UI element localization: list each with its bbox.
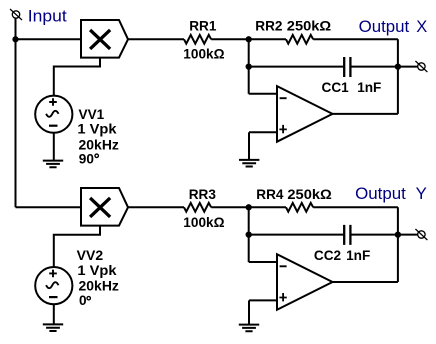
svg-text:1 Vpk: 1 Vpk [77, 263, 117, 278]
svg-text:VV2: VV2 [77, 248, 104, 263]
svg-text:RR2: RR2 [255, 19, 283, 34]
svg-text:Input: Input [28, 7, 67, 25]
svg-text:20kHz: 20kHz [79, 138, 120, 153]
svg-text:RR4: RR4 [256, 187, 284, 202]
svg-text:100kΩ: 100kΩ [183, 215, 224, 230]
svg-text:CC1: CC1 [322, 80, 350, 95]
svg-text:1 Vpk: 1 Vpk [77, 122, 117, 137]
svg-text:1nF: 1nF [346, 248, 370, 263]
svg-text:250kΩ: 250kΩ [287, 187, 332, 202]
svg-text:Output: Output [359, 18, 410, 36]
svg-text:250kΩ: 250kΩ [287, 19, 332, 34]
svg-text:90: 90 [79, 152, 94, 167]
svg-text:RR1: RR1 [189, 19, 217, 34]
svg-text:100kΩ: 100kΩ [183, 46, 224, 61]
svg-text:Output: Output [355, 185, 406, 203]
svg-text:20kHz: 20kHz [79, 279, 120, 294]
svg-text:CC2: CC2 [314, 248, 342, 263]
svg-text:1nF: 1nF [357, 80, 381, 95]
svg-text:X: X [416, 18, 427, 36]
svg-text:0: 0 [79, 293, 87, 308]
svg-text:RR3: RR3 [189, 187, 217, 202]
svg-text:Y: Y [416, 185, 427, 203]
svg-text:VV1: VV1 [79, 107, 105, 122]
